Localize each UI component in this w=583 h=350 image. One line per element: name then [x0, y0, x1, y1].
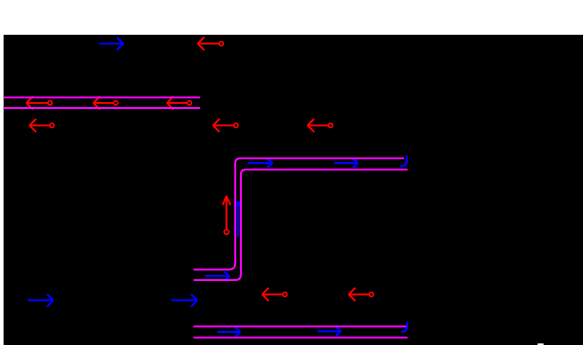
- electron arrow R3 (inside tube1, middle): [93, 96, 113, 109]
- wire tube2 inner line (Z-shaped): [194, 170, 408, 281]
- current arrow A7 partial at tube2 open end: [400, 156, 407, 167]
- electron arrow R9 (free, bottom row left): [262, 288, 283, 301]
- electron arrow R8 (vertical red with circle): [223, 196, 231, 230]
- electron arrow R10 (free, bottom row right): [348, 288, 369, 301]
- current arrow A2 (free blue, bottom left): [28, 294, 53, 306]
- current arrow A11 partial at tube3 open end: [401, 322, 407, 332]
- electron arrow R2 (inside tube1, left): [26, 96, 48, 109]
- electron arrow R7 (free, right of middle row): [307, 119, 328, 132]
- wire tube3 top line: [193, 325, 406, 327]
- wire tube1 bottom line: [4, 107, 200, 109]
- current arrow A1 (top free blue arrow): [99, 37, 123, 49]
- current arrow A4 (tube2 bottom stub): [205, 271, 229, 280]
- electron arrow R4 (inside tube1, right): [167, 96, 187, 109]
- white caret mark bottom right: [538, 343, 544, 345]
- current arrow A9 (tube3, left): [217, 327, 240, 336]
- current arrow A8 (vertical, inside tube2): [235, 201, 242, 236]
- current arrow A10 (tube3, right): [318, 327, 342, 336]
- electron arrow R6 (free, middle row): [213, 119, 234, 132]
- current arrow A6 (tube2 top, right): [334, 159, 358, 168]
- current arrow A3 (free blue, bottom middle): [171, 294, 197, 306]
- wire tube2 outer line (Z-shaped): [194, 158, 405, 269]
- current arrow A5 (tube2 top, left): [248, 159, 273, 168]
- wire tube3 bottom line: [193, 337, 407, 339]
- electron arrow R1 (top free red arrow with circle): [197, 37, 218, 50]
- electron arrow R5 (below tube1 left): [29, 119, 49, 132]
- wire tube1 top line: [4, 96, 200, 98]
